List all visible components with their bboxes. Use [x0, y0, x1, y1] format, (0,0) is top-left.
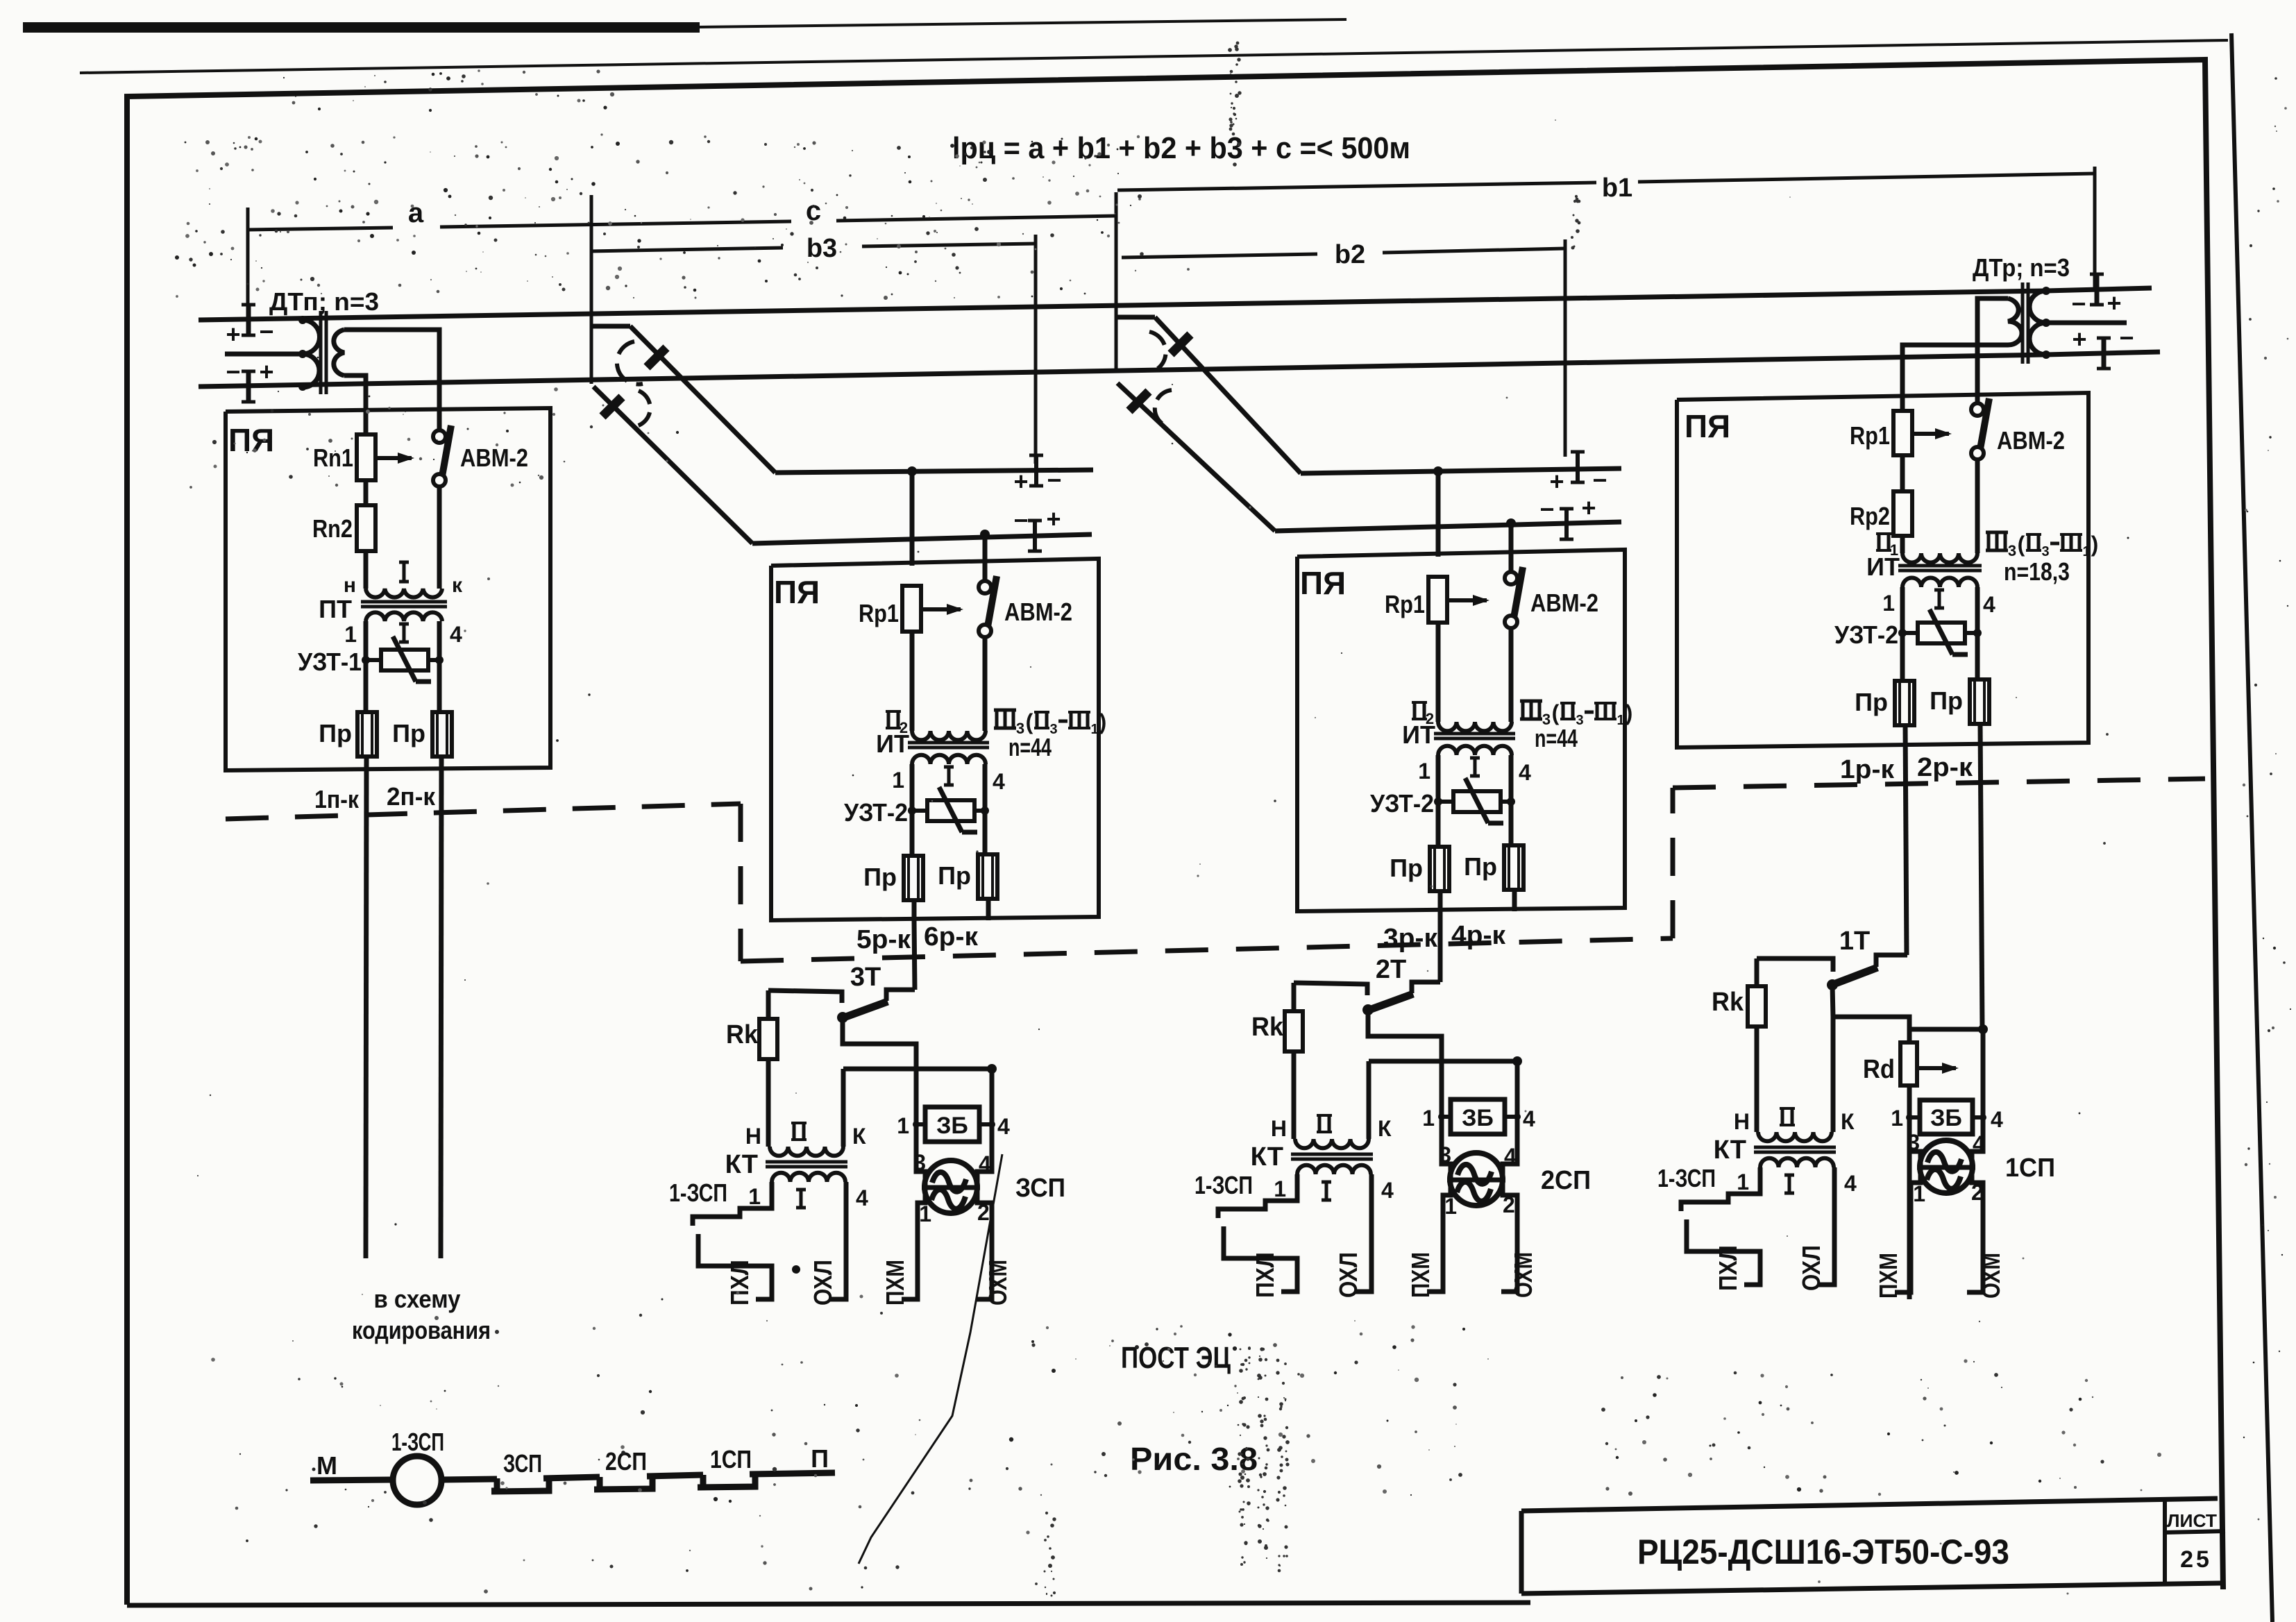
svg-text:ЗБ: ЗБ	[1930, 1105, 1962, 1131]
svg-text:К: К	[1841, 1109, 1855, 1134]
svg-text:1: 1	[1882, 591, 1895, 616]
wire diagonal cable D4 from bottom rail joint 2	[1117, 383, 1275, 531]
svg-text:УЗТ-2: УЗТ-2	[1370, 789, 1434, 818]
svg-text:ПЯ: ПЯ	[1685, 408, 1730, 444]
svg-text:1СП: 1СП	[2005, 1154, 2055, 1183]
enclosure box ПЯ 1	[226, 408, 550, 770]
wire 5р-к feed down to 3Т contact	[914, 920, 915, 990]
svg-text:1: 1	[1617, 713, 1624, 728]
svg-text:): )	[1099, 709, 1107, 734]
ПЯ box 2 (middle left)	[771, 559, 1106, 920]
svg-text:1-ЗСП: 1-ЗСП	[391, 1428, 444, 1456]
svg-text:ОХМ: ОХМ	[1509, 1252, 1537, 1298]
svg-text:1: 1	[892, 768, 904, 793]
transformer КТ primary winding	[770, 1147, 843, 1156]
svg-text:в схему: в схему	[374, 1285, 461, 1313]
svg-text:+: +	[1581, 493, 1596, 522]
svg-text:К: К	[852, 1124, 866, 1149]
wire motor left branch	[1427, 1061, 1451, 1292]
relay set 2Т / 2СП	[1195, 955, 1591, 1298]
wire ИТ-1 down	[1436, 755, 1441, 847]
choke transformer ДТр secondary winding	[2008, 298, 2022, 345]
transformer КТ set1 core separator	[1754, 1146, 1836, 1149]
svg-text:4: 4	[1504, 1144, 1517, 1169]
svg-text:1: 1	[1891, 1106, 1903, 1131]
insulated joint on top rail at ДТп	[246, 305, 251, 335]
svg-text:+: +	[2107, 289, 2121, 317]
wire diagonal cable D2 from bottom rail joint 1	[593, 387, 752, 543]
wire КТ-1 step to 1-ЗСП	[1218, 1174, 1297, 1218]
relay set 3Т / ЗСП	[669, 963, 1065, 1306]
svg-text:Н: Н	[1271, 1116, 1287, 1141]
resistor Rn1	[364, 412, 369, 435]
svg-text:АВМ-2: АВМ-2	[1997, 426, 2065, 455]
svg-text:2: 2	[1503, 1192, 1515, 1217]
transformer КТ core separator	[1291, 1153, 1373, 1156]
dashed boundary пост ЭЦ segment E	[1673, 779, 2205, 788]
resistor Rk	[766, 990, 771, 1019]
svg-text:1-ЗСП: 1-ЗСП	[669, 1179, 727, 1207]
svg-text:+: +	[1013, 467, 1028, 496]
dimension line c	[836, 216, 1116, 221]
wire from 1Т pivot down via Z-step	[1832, 985, 1983, 1029]
block ЗБ	[916, 1122, 925, 1126]
svg-text:ПЯ: ПЯ	[1300, 565, 1346, 601]
dimension line a	[248, 228, 393, 230]
svg-text:Rk: Rk	[1712, 988, 1744, 1017]
svg-text:b2: b2	[1335, 240, 1365, 269]
svg-text:1р-к: 1р-к	[1840, 755, 1895, 784]
svg-text:КТ: КТ	[1714, 1135, 1746, 1165]
choke transformer ДТп core	[319, 311, 323, 394]
scan artifact scratch line	[859, 1154, 1002, 1564]
switch machine circle 1-ЗСП	[393, 1456, 441, 1505]
node ДТп rail taps	[298, 316, 307, 324]
switch АВМ-2 box1	[437, 412, 442, 430]
transformer ИТ primary winding	[912, 731, 986, 740]
varistor УЗТ-1	[366, 658, 381, 662]
svg-text:1: 1	[1274, 1176, 1286, 1201]
resistor Rn2	[357, 505, 375, 551]
svg-text:УЗТ-2: УЗТ-2	[844, 798, 908, 827]
svg-text:3: 3	[1439, 1142, 1451, 1167]
cell ЛИСТ	[2163, 1501, 2167, 1584]
wire ИТ4-4 down	[1975, 587, 1980, 680]
wire ОХЛ from КТ-4	[1356, 1174, 1371, 1292]
svg-text:1: 1	[2082, 544, 2090, 559]
insulated joint on bottom rail at ДТр	[2102, 338, 2107, 369]
svg-text:Пр: Пр	[1390, 854, 1423, 882]
svg-text:−: −	[1539, 495, 1554, 523]
wire cable horizontal H1 (feeds ПЯ2 left)	[775, 470, 1093, 473]
svg-text:ДТп; n=3: ДТп; n=3	[269, 287, 379, 316]
dimension line b3	[590, 248, 783, 251]
svg-text:c: c	[806, 196, 821, 226]
svg-text:3р-к: 3р-к	[1383, 924, 1438, 953]
svg-text:1-ЗСП: 1-ЗСП	[1657, 1164, 1716, 1192]
wire 1р-к down from box4	[1905, 725, 1907, 955]
wire motor right branch / ОХМ	[1501, 1061, 1517, 1292]
fuse Пр right	[1504, 845, 1523, 890]
svg-text:+: +	[259, 357, 273, 386]
track relay motor element 2СП	[1450, 1153, 1503, 1206]
wire diagonal cable D1 from top rail joint 1	[630, 326, 775, 473]
varistor УЗТ-2 box4	[1902, 631, 1918, 635]
svg-text:4: 4	[1523, 1106, 1535, 1131]
node ДТр rail taps	[2042, 287, 2050, 295]
wire ДТп secondary bottom lead to Rn1 wire	[344, 375, 366, 412]
svg-text:1-ЗСП: 1-ЗСП	[1195, 1171, 1253, 1199]
svg-text:2: 2	[977, 1200, 990, 1225]
contact 1СП chain	[698, 1474, 755, 1487]
wire ДТр secondary bottom lead to Rp1 wire of ПЯ4	[1902, 345, 2008, 411]
svg-text:Пр: Пр	[319, 719, 352, 747]
svg-text:(: (	[2018, 532, 2025, 557]
svg-text:Rp1: Rp1	[859, 599, 899, 627]
jumper arc lower at joint 2	[1155, 390, 1172, 423]
svg-text:+: +	[226, 320, 240, 348]
wire ИТ-4 down	[1509, 755, 1514, 846]
svg-text:ПХМ: ПХМ	[1874, 1253, 1902, 1299]
wire between Rn1 and Rn2	[364, 480, 369, 505]
choke transformer ДТп track winding	[303, 320, 319, 387]
dashed boundary пост ЭЦ segment C	[741, 938, 1673, 961]
svg-text:ОХМ: ОХМ	[984, 1260, 1012, 1306]
wire Rp1 to ИТ	[1436, 623, 1441, 722]
resistor Rp2 box4	[1893, 491, 1912, 536]
transformer ИТ box4 primary winding	[1902, 553, 1977, 563]
wire Rk to КТ primary н	[766, 1059, 771, 1147]
svg-text:Rp1: Rp1	[1850, 421, 1890, 450]
jumper arc upper at joint 2	[1149, 332, 1166, 369]
transformer ИТ core separator	[908, 741, 989, 745]
ПЯ box 3 (middle right)	[1297, 550, 1632, 911]
battery joint symbol on H3	[1576, 452, 1580, 482]
wire Rk top horizontal	[768, 990, 842, 1003]
svg-text:+: +	[1549, 467, 1564, 496]
resistor Rk set1	[1755, 958, 1759, 985]
svg-text:): )	[1626, 700, 1633, 725]
wire К terminal up to long horizontal	[841, 1069, 846, 1147]
wire КТ-1 step to 1-ЗСП set1	[1681, 1167, 1760, 1211]
svg-text:Пр: Пр	[1464, 852, 1497, 881]
svg-text:Rk: Rk	[1251, 1013, 1284, 1042]
transformer КТ primary winding	[1295, 1139, 1369, 1148]
wire К terminal from junction down set1	[1831, 1017, 1836, 1132]
rail top (track line 1)	[199, 291, 2046, 320]
wire long horizontal to ОХМ wire	[843, 1067, 992, 1072]
wire Rk top horizontal	[1294, 983, 1367, 995]
svg-text:4: 4	[450, 622, 462, 647]
winding label III3(II3-III1) box4	[1986, 531, 2008, 534]
svg-text:Пр: Пр	[1930, 686, 1963, 715]
wire ПХЛ set1	[1687, 1219, 1760, 1285]
dimension tick b3 right	[1034, 235, 1038, 464]
track relay motor element 1СП	[1920, 1140, 1973, 1193]
varistor УЗТ-2	[1438, 800, 1453, 804]
wire ПХЛ stub	[1224, 1226, 1297, 1292]
wire Rp1-Rp2	[1900, 455, 1905, 491]
jumper arc upper at joint 1	[617, 341, 643, 385]
resistor Rd	[1907, 1029, 1912, 1041]
cable connector mark on D3	[1171, 335, 1190, 354]
svg-text:Rn1: Rn1	[313, 443, 353, 472]
svg-text:−: −	[2119, 323, 2134, 352]
jumper arc lower at joint 1	[636, 391, 650, 426]
svg-text:4: 4	[997, 1114, 1010, 1139]
svg-text:4: 4	[993, 769, 1005, 794]
wire ПЯ2 right wire up to cable H2	[983, 534, 988, 559]
svg-text:КТ: КТ	[725, 1150, 758, 1179]
svg-text:4: 4	[1991, 1107, 2003, 1132]
wire К terminal up to long horizontal	[1367, 1061, 1371, 1139]
fuse Пр left	[904, 856, 923, 900]
winding label III3(II3-III1)	[1520, 700, 1542, 703]
varistor УЗТ-2	[912, 809, 927, 813]
wire ИТ-4 down	[983, 764, 988, 855]
wire from contact pivot down	[843, 1017, 916, 1069]
svg-text:(: (	[1026, 709, 1033, 734]
svg-text:b3: b3	[807, 234, 837, 263]
svg-text:Rp1: Rp1	[1385, 590, 1425, 618]
battery joint symbol on H1	[1034, 455, 1038, 486]
wire diagonal cable D3 from top rail joint 2	[1155, 317, 1301, 473]
svg-text:КТ: КТ	[1251, 1142, 1283, 1172]
svg-text:ЗСП: ЗСП	[503, 1449, 542, 1478]
svg-text:Rd: Rd	[1863, 1055, 1895, 1084]
svg-text:−: −	[1047, 466, 1061, 494]
transformer КТ secondary winding	[772, 1173, 845, 1182]
enclosure box ПЯ	[771, 559, 1099, 920]
block ЗБ set1	[1909, 1115, 1920, 1120]
svg-text:4: 4	[1381, 1178, 1394, 1203]
wire fuse left down to box edge	[912, 900, 917, 920]
svg-text:ПХЛ: ПХЛ	[1714, 1245, 1742, 1291]
svg-text:1: 1	[748, 1184, 761, 1209]
wire motor right branch / ОХМ set1	[1967, 1029, 1983, 1292]
transformer ИТ primary winding	[1438, 722, 1512, 731]
wire АВМ-2 to ИТ box4	[1975, 459, 1980, 553]
svg-text:3Т: 3Т	[850, 963, 881, 992]
svg-text:Пр: Пр	[863, 863, 897, 891]
svg-text:ПХМ: ПХМ	[1406, 1252, 1435, 1298]
wire Rk to КТ primary н	[1292, 1051, 1297, 1139]
svg-text:4: 4	[979, 1151, 991, 1176]
svg-text:b1: b1	[1602, 174, 1632, 203]
wire ПЯ2 left wire up to cable H1	[910, 471, 915, 566]
wire АВМ-2 to ИТ	[983, 636, 988, 731]
wire АВМ-2 to ИТ	[1509, 627, 1514, 722]
scan artifact: top black bar	[23, 22, 700, 33]
enclosure box ПЯ 4	[1677, 393, 2088, 747]
svg-text:4: 4	[1983, 592, 1995, 617]
resistor Rk	[1292, 983, 1297, 1011]
scan artifact: page right edge line	[2231, 33, 2272, 1622]
fuse Пр left box4	[1895, 681, 1914, 725]
choke transformer ДТп secondary winding	[334, 330, 344, 375]
svg-text:н: н	[344, 574, 356, 597]
svg-text:2п-к: 2п-к	[387, 782, 436, 811]
wire ИТ4-1 down	[1900, 587, 1905, 680]
transformer КТ set1 primary winding	[1758, 1132, 1832, 1141]
transformer ИТ secondary winding	[912, 755, 986, 764]
wire ДТр middle tap	[2046, 321, 2127, 326]
scan artifact: thin skew line under bar	[80, 40, 2228, 73]
svg-text:Rp2: Rp2	[1850, 502, 1890, 530]
svg-text:3: 3	[1907, 1130, 1920, 1155]
svg-text:−: −	[1013, 506, 1028, 534]
wire Rd to ЗБ-1 and motor	[1907, 1085, 1912, 1299]
svg-text:ЗСП: ЗСП	[1015, 1174, 1065, 1203]
switch АВМ-2 box4	[1971, 403, 1984, 416]
wire АВМ-2 to ПТ primary к	[437, 486, 442, 589]
svg-text:2: 2	[1971, 1180, 1984, 1205]
svg-text:Rk: Rk	[726, 1020, 759, 1049]
dimension tick c/b1 boundary	[1115, 192, 1118, 371]
svg-text:ОХМ: ОХМ	[1977, 1253, 2005, 1299]
wire ПТ-1 down to fuse	[364, 621, 369, 713]
svg-text:кодирования: кодирования	[352, 1316, 491, 1344]
switch АВМ-2	[1509, 550, 1514, 572]
wire jumper stub below top rail at joint 1	[591, 324, 630, 329]
dimension line b2	[1122, 254, 1317, 257]
svg-text:4: 4	[1844, 1171, 1857, 1196]
svg-text:1: 1	[1418, 759, 1430, 784]
wire ДТп secondary top lead to АВМ-2 wire	[344, 330, 439, 412]
svg-text:РЦ25-ДСШ16-ЭТ50-С-93: РЦ25-ДСШ16-ЭТ50-С-93	[1637, 1532, 2009, 1571]
svg-text:1: 1	[897, 1113, 909, 1138]
cable connector mark on D1	[647, 348, 666, 367]
svg-text:n=18,3: n=18,3	[2004, 557, 2070, 586]
svg-text:5р-к: 5р-к	[856, 925, 911, 954]
wire Rn2 to ПТ primary н	[364, 551, 369, 589]
fuse Пр left	[1430, 847, 1449, 891]
wire and contact ЗСП	[441, 1479, 497, 1480]
wire ПТ-4 down to fuse	[437, 621, 442, 713]
block ЗБ	[1442, 1115, 1451, 1119]
svg-text:ПХМ: ПХМ	[881, 1260, 909, 1306]
transformer ПТ primary winding	[366, 589, 442, 598]
svg-text:К: К	[1378, 1116, 1392, 1141]
wire КТ-1 step to 1-ЗСП	[693, 1182, 772, 1226]
wire ПЯ3 right wire up to cable H4	[1509, 523, 1514, 550]
svg-text:25: 25	[2180, 1546, 2212, 1573]
contact 2СП chain	[594, 1476, 652, 1489]
svg-text:ДТр; n=3: ДТр; n=3	[1973, 253, 2070, 282]
svg-text:): )	[2091, 532, 2099, 557]
dimension tick b2 right	[1564, 239, 1567, 457]
wire fuse right down to box edge	[986, 899, 991, 920]
svg-text:1п-к: 1п-к	[314, 785, 360, 813]
svg-text:ПЯ: ПЯ	[228, 422, 274, 458]
wire ОХЛ set1	[1818, 1167, 1834, 1285]
svg-text:Пр: Пр	[392, 719, 425, 747]
svg-text:к: к	[452, 574, 463, 597]
svg-text:4: 4	[1519, 760, 1531, 785]
wire 3р-к feed down to 2Т contact	[1438, 911, 1443, 982]
wire Rp1 to ИТ	[910, 632, 915, 731]
transformer ИТ secondary winding	[1438, 746, 1512, 755]
svg-text:ЗБ: ЗБ	[1462, 1105, 1494, 1131]
battery joint symbol on H2	[1033, 521, 1037, 551]
svg-text:АВМ-2: АВМ-2	[1530, 589, 1598, 617]
wire ИТ-1 down	[910, 764, 915, 856]
resistor Rp1	[902, 586, 921, 632]
rail bottom (track line 2)	[199, 355, 2046, 387]
wire long horizontal to ОХМ wire	[1369, 1059, 1517, 1064]
cable connector mark on D2	[602, 397, 622, 416]
wire ПХЛ stub	[698, 1234, 772, 1299]
wire fuse left down to box edge	[1438, 891, 1443, 911]
wire 1п-к from box1 down	[366, 757, 366, 1258]
svg-text:4: 4	[856, 1185, 868, 1210]
svg-text:2СП: 2СП	[605, 1447, 647, 1476]
svg-text:Rn2: Rn2	[312, 514, 353, 543]
winding label III3(II3-III1)	[994, 709, 1016, 712]
choke transformer ДТр track winding	[2029, 291, 2046, 355]
cable connector mark on D4	[1129, 391, 1149, 411]
switch АВМ-2	[983, 559, 988, 581]
wire motor right branch / ОХМ	[976, 1069, 992, 1299]
fuse Пр right	[978, 854, 997, 899]
svg-text:1: 1	[1737, 1169, 1749, 1194]
svg-text:+: +	[1046, 505, 1061, 533]
wire М chain left segment	[310, 1480, 393, 1480]
wire 1р-к feed down to 1Т contact	[1907, 953, 1907, 958]
transformer ПТ core separator	[361, 600, 447, 604]
dimension tick left (a start)	[246, 208, 250, 321]
transformer ИТ box4 core separator	[1898, 564, 1982, 568]
fuse Пр right box1	[432, 712, 452, 757]
ink blob artifact	[792, 1265, 800, 1274]
transformer ИТ box4 secondary winding	[1902, 578, 1977, 588]
svg-text:Н: Н	[745, 1124, 761, 1149]
svg-text:6р-к: 6р-к	[924, 922, 979, 952]
wire ДТп middle tap	[225, 352, 303, 357]
dimension line b1	[1117, 183, 1596, 190]
svg-text:ПТ: ПТ	[319, 595, 352, 623]
svg-text:lрц = a + b1 + b2 + b3 + c =<: lрц = a + b1 + b2 + b3 + c =< 500м	[952, 131, 1410, 165]
resistor Rp1 box4	[1893, 411, 1912, 455]
svg-text:2р-к: 2р-к	[1917, 753, 1973, 782]
svg-text:4: 4	[1973, 1131, 1985, 1156]
svg-text:1: 1	[344, 622, 357, 647]
svg-text:1: 1	[1913, 1181, 1925, 1206]
resistor Rp1	[1428, 577, 1447, 623]
wire motor left branch set1	[1895, 1085, 1921, 1292]
track relay motor element ЗСП	[925, 1160, 977, 1213]
svg-text:АВМ-2: АВМ-2	[1004, 598, 1072, 626]
svg-text:ПЯ: ПЯ	[774, 574, 820, 610]
wire 2р-к down from box4	[1980, 724, 1982, 1029]
wire ДТр secondary top lead to АВМ-2 wire of ПЯ4	[1977, 298, 2008, 404]
svg-text:Пр: Пр	[938, 861, 971, 890]
wire Rk to КТ primary н set1	[1755, 1027, 1759, 1132]
svg-text:3: 3	[913, 1150, 926, 1175]
svg-text:АВМ-2: АВМ-2	[460, 443, 528, 472]
dashed boundary пост ЭЦ segment A	[226, 804, 741, 819]
svg-text:УЗТ-1: УЗТ-1	[298, 648, 362, 676]
dimension tick b1 right	[2093, 167, 2097, 287]
svg-text:Пр: Пр	[1855, 688, 1888, 716]
wire jumper stub below top rail at joint 2	[1116, 315, 1155, 320]
dimension tick a/c boundary	[590, 195, 593, 384]
svg-text:ЛИСТ: ЛИСТ	[2167, 1510, 2217, 1531]
choke transformer ДТр core	[2021, 282, 2025, 364]
dashed boundary пост ЭЦ segment B (vertical)	[738, 804, 743, 961]
svg-text:1СП: 1СП	[710, 1445, 752, 1473]
insulated joint on top rail at ДТр	[2095, 274, 2100, 305]
